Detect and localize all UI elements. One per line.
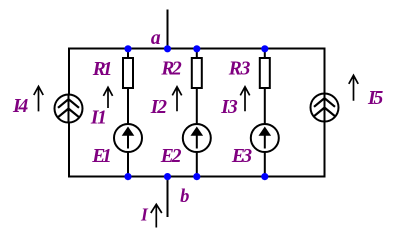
svg-text:E3: E3 xyxy=(231,146,252,167)
svg-text:R1: R1 xyxy=(92,59,113,80)
svg-text:I2: I2 xyxy=(150,97,167,118)
svg-text:I3: I3 xyxy=(220,97,238,118)
svg-text:I4: I4 xyxy=(12,96,28,117)
svg-text:I5: I5 xyxy=(367,88,383,109)
svg-text:a: a xyxy=(151,28,161,49)
svg-text:b: b xyxy=(180,187,189,207)
svg-text:E2: E2 xyxy=(160,146,182,167)
svg-text:E1: E1 xyxy=(91,146,112,167)
svg-text:I1: I1 xyxy=(90,108,107,129)
svg-text:I: I xyxy=(140,204,149,224)
svg-text:R3: R3 xyxy=(228,59,251,80)
svg-text:R2: R2 xyxy=(160,59,182,80)
